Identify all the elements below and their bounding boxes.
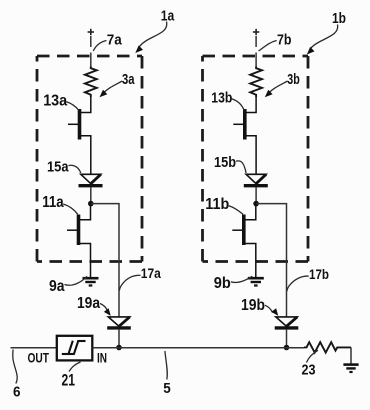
label 7b — [259, 32, 292, 51]
svg-text:15b: 15b — [214, 155, 236, 171]
svg-text:23: 23 — [302, 362, 316, 379]
svg-text:19b: 19b — [241, 297, 265, 314]
svg-text:11a: 11a — [42, 194, 64, 211]
svg-text:7a: 7a — [107, 32, 123, 49]
svg-text:3a: 3a — [122, 71, 135, 88]
wire supply lead 7b — [255, 36, 257, 67]
label 9a — [49, 276, 87, 295]
svg-text:1b: 1b — [332, 11, 346, 27]
svg-text:1a: 1a — [161, 8, 175, 24]
transistor 13b — [233, 97, 256, 174]
svg-text:13a: 13a — [43, 93, 67, 110]
label 3a — [100, 71, 135, 97]
svg-text:19a: 19a — [77, 295, 100, 312]
wire bus line 5 — [92, 347, 304, 349]
diode 19b — [275, 317, 299, 328]
schmitt trigger box 21 — [57, 336, 93, 361]
svg-text:3b: 3b — [287, 71, 300, 88]
plus supply terminal 7a — [88, 29, 94, 35]
svg-text:17a: 17a — [141, 266, 161, 281]
ground 9a — [83, 278, 99, 285]
transistor 13a — [68, 97, 91, 174]
wire supply lead 7a — [90, 36, 92, 67]
plus supply terminal 7b — [253, 29, 259, 35]
label 15b — [214, 155, 246, 173]
svg-text:13b: 13b — [211, 90, 232, 107]
dashed enclosure box 1a — [37, 56, 142, 262]
svg-text:21: 21 — [62, 371, 76, 390]
label 13a — [43, 93, 79, 111]
label 17a — [119, 266, 161, 290]
wire 19a cathode to bus — [118, 330, 120, 348]
bus junction dot — [116, 345, 122, 351]
label 11a — [42, 194, 77, 214]
node junction dot — [88, 201, 94, 207]
label 7a — [93, 32, 122, 51]
label 19b — [241, 297, 278, 316]
wire output bus left segment — [11, 347, 57, 349]
svg-text:11b: 11b — [205, 196, 229, 213]
svg-text:5: 5 — [163, 381, 171, 397]
svg-text:9b: 9b — [214, 275, 231, 292]
svg-text:IN: IN — [97, 351, 107, 366]
transistor 11a — [67, 204, 91, 277]
node junction dot — [253, 201, 259, 207]
label 3b — [265, 71, 300, 97]
label 1a — [135, 8, 175, 53]
svg-text:6: 6 — [13, 384, 21, 401]
ground (resistor 23) — [343, 365, 358, 372]
wire branch to 17a — [91, 204, 119, 317]
resistor 3b — [250, 67, 262, 98]
wire resistor 23 to ground — [350, 347, 352, 364]
label 1b — [307, 11, 346, 55]
svg-text:15a: 15a — [47, 159, 69, 176]
label 6 — [13, 350, 21, 401]
label 11b — [205, 196, 243, 215]
svg-text:17b: 17b — [309, 267, 329, 282]
bus junction dot — [284, 345, 290, 351]
label 5 — [163, 351, 171, 397]
diode 15a — [79, 174, 103, 185]
svg-text:9a: 9a — [49, 278, 65, 295]
svg-text:7b: 7b — [277, 32, 292, 49]
diode 15b — [244, 174, 268, 185]
wire 15a cathode to node — [90, 187, 92, 203]
wire branch to 17b — [256, 204, 286, 317]
label 23 — [302, 350, 319, 378]
svg-text:OUT: OUT — [28, 351, 50, 366]
wire 15b cathode to node — [255, 187, 257, 203]
label 21 — [62, 362, 81, 390]
ground 9b — [248, 278, 264, 285]
label 13b — [211, 90, 244, 111]
label 19a — [77, 295, 111, 316]
resistor 3a — [85, 67, 97, 98]
diode 19a — [107, 317, 131, 328]
resistor 23 — [304, 342, 351, 352]
label 17b — [287, 267, 329, 291]
transistor 11b — [232, 204, 256, 277]
label 9b — [214, 275, 253, 292]
dashed enclosure box 1b — [203, 56, 309, 262]
label 15a — [47, 159, 81, 176]
wire 19b cathode to bus — [286, 330, 288, 348]
